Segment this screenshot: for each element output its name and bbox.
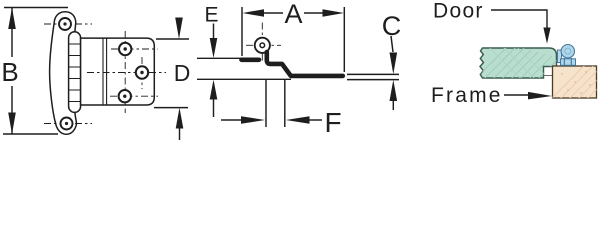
Frame leader line bbox=[504, 94, 530, 96]
plate vertical centerline left holes bbox=[124, 31, 126, 113]
dimension C bottom arrow bbox=[390, 80, 398, 101]
barrel legs bbox=[564, 58, 571, 65]
dimension B top extension line bbox=[4, 7, 68, 9]
frame rabbet ledge line bbox=[544, 75, 553, 77]
svg-text:B: B bbox=[1, 57, 18, 87]
top hole centerline bbox=[44, 23, 92, 25]
offset leaf Z profile bbox=[267, 52, 343, 76]
plate main horizontal centerline bbox=[87, 72, 166, 74]
bottom hole centerline bbox=[44, 123, 92, 125]
dimension B line lower segment bbox=[11, 86, 13, 134]
dimension C stem bbox=[391, 36, 393, 52]
dimension A right extension line bbox=[343, 7, 345, 72]
dimension D bottom extension line bbox=[154, 107, 188, 109]
barrel segment lines bbox=[69, 44, 81, 102]
dimension A right arrow bbox=[323, 9, 345, 17]
door hatch bbox=[472, 44, 573, 100]
dimension F left arrow bbox=[241, 116, 265, 124]
plate vertical centerline middle hole bbox=[141, 57, 143, 89]
dimension D bottom arrow bbox=[176, 108, 184, 129]
frame speckles bbox=[561, 71, 590, 93]
barrel pin bbox=[260, 43, 265, 48]
E lower extension line (mount plane) bbox=[197, 78, 291, 80]
svg-text:A: A bbox=[284, 0, 302, 29]
plate hole top bbox=[119, 43, 131, 55]
barrel centerline vertical bbox=[261, 23, 263, 63]
C lower extension line bbox=[347, 79, 399, 81]
dimension B bottom extension line bbox=[3, 133, 58, 135]
dimension F right arrow bbox=[286, 116, 310, 124]
dimension F left extension line bbox=[265, 80, 267, 127]
Frame leader arrow bbox=[528, 92, 552, 100]
plate hole middle bbox=[136, 66, 148, 78]
hinge barrel (blue) bbox=[561, 45, 574, 58]
svg-text:D: D bbox=[174, 60, 191, 86]
dimension D bottom arrow stem bbox=[179, 128, 181, 140]
barrel centerline horizontal bbox=[246, 44, 281, 46]
plate bend lines bbox=[103, 38, 107, 105]
svg-text:F: F bbox=[324, 107, 341, 138]
hinge frame leaf (blue) bbox=[561, 59, 576, 66]
hinge plate (right leaf) bbox=[81, 38, 155, 105]
hinge barrel (knuckle column) bbox=[69, 32, 81, 113]
dimension D top arrow bbox=[175, 18, 183, 40]
dimension D top extension line bbox=[156, 38, 189, 40]
dimension E top arrow bbox=[210, 38, 218, 58]
barrel (side view) bbox=[255, 38, 270, 53]
dimension A left arrow bbox=[243, 9, 265, 17]
C upper extension line bbox=[347, 73, 399, 75]
plate horizontal centerline bottom hole bbox=[110, 95, 158, 97]
short door leaf (side view) bbox=[242, 57, 260, 62]
hinge door leaf (blue, on door back) bbox=[558, 50, 562, 63]
dimension B bottom arrow bbox=[8, 113, 16, 135]
dimension B line upper segment bbox=[11, 8, 13, 58]
bottom screw hole bbox=[61, 118, 73, 130]
dimension E bottom arrow bbox=[210, 80, 218, 100]
svg-text:Frame: Frame bbox=[431, 84, 503, 107]
svg-text:E: E bbox=[204, 4, 218, 27]
Door leader arrow bbox=[543, 28, 550, 44]
dimension B top arrow bbox=[8, 8, 16, 30]
svg-text:Door: Door bbox=[433, 0, 484, 23]
hinge leaf (oval strap) bbox=[50, 12, 77, 135]
door cross-section bbox=[480, 48, 557, 78]
dimension E bottom arrow stem bbox=[213, 99, 215, 117]
dimension C bottom arrow stem bbox=[392, 100, 394, 110]
dimension E stem bbox=[213, 24, 215, 40]
frame cross-section bbox=[553, 66, 597, 98]
E upper extension line bbox=[197, 57, 247, 59]
dimension F right extension line bbox=[284, 80, 286, 127]
frame hatch bbox=[546, 64, 600, 114]
plate horizontal centerline top hole bbox=[111, 48, 158, 50]
Door leader line bbox=[491, 10, 547, 29]
dimension C top arrow bbox=[390, 53, 398, 75]
top screw hole bbox=[59, 18, 71, 30]
plate hole bottom bbox=[119, 90, 131, 102]
dimension A left extension line bbox=[241, 7, 243, 56]
